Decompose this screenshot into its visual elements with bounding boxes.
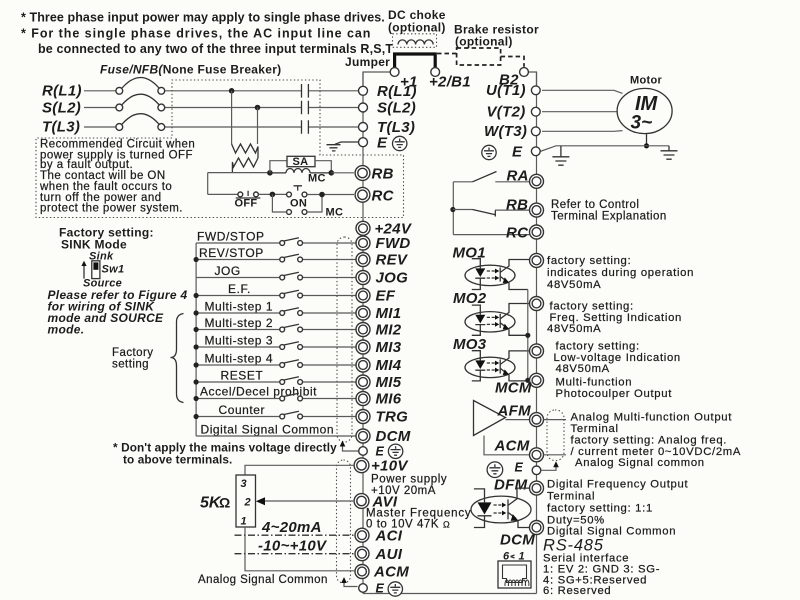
Sw1 switch symbol xyxy=(92,261,100,279)
MC main contact T xyxy=(302,120,309,134)
wire +10V to pot pin3 xyxy=(245,465,354,475)
terminal E (control) xyxy=(359,447,368,456)
wire OFF to ON xyxy=(259,193,287,195)
svg-text:Terminal: Terminal xyxy=(571,423,619,435)
arrow from analog E to capsule xyxy=(344,580,358,587)
wire +1 to left bus corner xyxy=(363,72,390,87)
ACM stub right xyxy=(544,454,567,456)
svg-text:DFM: DFM xyxy=(494,477,528,494)
svg-text:ACM: ACM xyxy=(373,564,409,581)
relay contact bus xyxy=(452,182,454,235)
circled ground at control E xyxy=(388,444,402,458)
wire S row xyxy=(84,107,116,109)
terminal RA xyxy=(530,174,544,188)
fault circuit left drop xyxy=(207,173,209,195)
terminal FWD xyxy=(356,236,370,250)
brake resistor dashed box xyxy=(457,48,501,65)
svg-text:ON: ON xyxy=(290,198,307,210)
wire T row xyxy=(84,126,116,128)
MC main contact S xyxy=(302,101,309,115)
left terminal bus xyxy=(362,72,364,594)
terminal MI4 xyxy=(356,358,370,372)
svg-text:E.F.: E.F. xyxy=(228,282,251,296)
terminal MO1 xyxy=(530,253,544,267)
dashed wire +2/B1 to brake resistor xyxy=(437,53,457,55)
svg-text:DCM: DCM xyxy=(500,532,535,549)
svg-text:Multi-function: Multi-function xyxy=(556,377,633,389)
SA branch up wire xyxy=(270,161,287,173)
AFM amplifier xyxy=(474,401,506,436)
svg-text:T(L3): T(L3) xyxy=(42,119,80,136)
terminal B2 xyxy=(520,68,529,77)
terminal E right xyxy=(532,466,541,475)
svg-text:RB: RB xyxy=(372,166,394,183)
svg-text:-10~+10V: -10~+10V xyxy=(258,538,328,555)
svg-text:setting: setting xyxy=(112,359,149,371)
svg-text:Refer to Control: Refer to Control xyxy=(551,199,639,211)
svg-text:REV/STOP: REV/STOP xyxy=(199,246,264,260)
control wiring capsule xyxy=(337,237,352,442)
svg-text:(optional): (optional) xyxy=(388,21,446,35)
terminal AFM xyxy=(530,413,544,427)
svg-text:MI3: MI3 xyxy=(376,339,402,356)
wire R row xyxy=(84,90,116,92)
svg-text:E: E xyxy=(512,144,523,161)
wire drop from S junction xyxy=(257,108,259,145)
recommended-circuit dotted boundary polygon xyxy=(36,80,404,218)
output terminal E xyxy=(531,147,540,156)
svg-text:* Three phase input power may: * Three phase input power may apply to s… xyxy=(21,11,385,25)
svg-text:Sw1: Sw1 xyxy=(102,264,125,276)
circled ground at output E xyxy=(482,145,496,159)
circled ground at input E xyxy=(393,136,407,150)
ACI dash-dot wire xyxy=(235,534,356,536)
svg-text:V(T2): V(T2) xyxy=(487,104,526,121)
svg-text:6: Reserved: 6: Reserved xyxy=(543,585,611,597)
bottom common wire xyxy=(363,593,537,595)
factory setting brace xyxy=(171,314,184,403)
OFF switch wire xyxy=(208,193,238,195)
input terminal R(L1) xyxy=(359,86,368,95)
svg-text:MI5: MI5 xyxy=(376,374,402,391)
fault circuit bottom wire xyxy=(208,172,270,174)
terminal MCM xyxy=(530,373,544,387)
fuse/NFB R xyxy=(116,87,123,94)
terminal RB (output) xyxy=(530,203,544,217)
junction at SA branch xyxy=(267,170,273,176)
terminal REV xyxy=(356,253,370,267)
svg-text:Multi-step 4: Multi-step 4 xyxy=(205,352,274,366)
OFF contact xyxy=(238,192,243,197)
terminal MI3 xyxy=(356,340,370,354)
svg-text:W(T3): W(T3) xyxy=(484,123,527,140)
AFM stub right xyxy=(544,419,567,421)
junction right of SA xyxy=(329,170,335,176)
terminal +24V xyxy=(356,221,370,235)
motor IM 3~ xyxy=(617,88,672,133)
wire amp to AFM xyxy=(506,419,530,421)
terminal DFM xyxy=(530,481,544,495)
RJ45 jack xyxy=(498,561,531,588)
MC main contact R xyxy=(302,84,309,98)
input terminal S(L2) xyxy=(359,103,368,112)
svg-text:RC: RC xyxy=(506,225,529,242)
terminal ACM xyxy=(355,565,369,579)
svg-text:E: E xyxy=(377,135,388,152)
svg-text:MC: MC xyxy=(308,173,326,185)
terminal DCM (right) xyxy=(530,521,544,535)
svg-text:mode.: mode. xyxy=(48,323,85,337)
svg-text:ACM: ACM xyxy=(494,438,530,455)
svg-text:Analog Signal Common: Analog Signal Common xyxy=(198,574,328,586)
svg-text:Photocoulper Output: Photocoulper Output xyxy=(556,388,673,400)
svg-text:Fuse/NFB(None Fuse Breaker): Fuse/NFB(None Fuse Breaker) xyxy=(100,63,281,77)
svg-text:ACI: ACI xyxy=(375,528,403,545)
svg-text:R(L1): R(L1) xyxy=(42,83,82,100)
svg-text:factory setting: 1:1: factory setting: 1:1 xyxy=(547,503,653,515)
terminal +10V xyxy=(354,458,369,473)
wire drop from R junction xyxy=(231,91,233,144)
svg-text:TRG: TRG xyxy=(376,409,409,426)
svg-text:Analog Multi-function Output: Analog Multi-function Output xyxy=(571,412,733,424)
svg-text:protect the power system.: protect the power system. xyxy=(40,203,183,215)
terminal ACM (right) xyxy=(530,448,544,462)
input terminal T(L3) xyxy=(359,123,368,132)
svg-text:factory setting:: factory setting: xyxy=(550,301,634,313)
terminal AUI xyxy=(355,547,369,561)
svg-text:JOG: JOG xyxy=(376,270,409,287)
junction right of ON xyxy=(319,192,325,198)
svg-text:Multi-step 3: Multi-step 3 xyxy=(205,334,274,348)
terminal +1 xyxy=(390,68,399,77)
wire B2 to right bus corner xyxy=(528,72,536,86)
wire W to motor xyxy=(542,130,623,133)
ground symbol near E output xyxy=(560,146,562,157)
svg-text:* For the single phase drives,: * For the single phase drives, the AC in… xyxy=(21,27,371,41)
svg-text:Factory: Factory xyxy=(112,347,154,359)
svg-text:Power supply: Power supply xyxy=(371,474,447,486)
svg-text:Multi-step 1: Multi-step 1 xyxy=(205,300,274,314)
svg-text:factory setting:: factory setting: xyxy=(556,341,640,353)
terminal MO2 xyxy=(530,297,544,311)
terminal MI5 xyxy=(356,375,370,389)
wire pot pin1 to ACM xyxy=(245,527,355,571)
svg-text:EF: EF xyxy=(376,288,396,305)
svg-text:JOG: JOG xyxy=(215,264,241,278)
ground symbol near motor xyxy=(668,146,670,151)
terminal EF xyxy=(356,289,370,303)
DC choke coil xyxy=(398,40,433,45)
svg-text:48V50mA: 48V50mA xyxy=(556,363,610,375)
svg-text:MI4: MI4 xyxy=(376,357,402,374)
svg-text:MI1: MI1 xyxy=(376,305,402,322)
svg-text:AUI: AUI xyxy=(375,546,403,563)
output terminal U(T1) xyxy=(531,86,540,95)
MC coil xyxy=(270,169,331,173)
svg-text:E: E xyxy=(376,445,385,459)
terminal +2/B1 xyxy=(431,68,440,77)
DC choke L1 dotted box xyxy=(393,34,437,48)
Sw1 arrow xyxy=(83,265,85,279)
jumper thick bar between +1 and +2/B1 xyxy=(395,54,436,68)
wire to RB xyxy=(331,172,354,174)
fuse/NFB S xyxy=(116,104,123,111)
terminal DCM xyxy=(356,429,370,443)
SA box xyxy=(287,156,315,166)
svg-text:+10V: +10V xyxy=(371,458,409,475)
RC wire xyxy=(453,234,530,236)
AFM capsule xyxy=(547,410,564,461)
ON push button actuator xyxy=(294,186,303,191)
svg-text:factory setting:: factory setting: xyxy=(547,255,631,267)
svg-text:3: 3 xyxy=(241,478,247,490)
arrow from E to capsule xyxy=(343,444,359,451)
svg-text:RC: RC xyxy=(372,188,395,205)
wire AVI to pot wiper xyxy=(263,500,355,502)
svg-text:(optional): (optional) xyxy=(455,35,513,49)
svg-text:MI2: MI2 xyxy=(376,322,402,339)
terminal MI1 xyxy=(356,306,370,320)
svg-text:to above terminals.: to above terminals. xyxy=(123,453,232,467)
MC aux right link xyxy=(307,195,322,213)
resistor zigzag upper xyxy=(232,144,258,158)
right terminal bus xyxy=(536,72,538,594)
terminal RC xyxy=(355,187,370,202)
terminal JOG xyxy=(356,271,370,285)
svg-text:48V50mA: 48V50mA xyxy=(547,279,601,291)
svg-text:DCM: DCM xyxy=(376,428,411,445)
svg-text:Counter: Counter xyxy=(219,403,266,417)
svg-text:Motor: Motor xyxy=(630,75,662,87)
MO3 optocoupler xyxy=(465,351,530,381)
terminal TRG xyxy=(356,410,370,424)
svg-text:RESET: RESET xyxy=(221,369,264,383)
SA right wire xyxy=(315,161,331,173)
svg-text:MO3: MO3 xyxy=(453,336,487,353)
analog wiring capsule xyxy=(337,460,351,583)
circled ground at right E xyxy=(487,462,503,478)
svg-text:+2/B1: +2/B1 xyxy=(429,74,471,91)
svg-text:3~: 3~ xyxy=(631,113,653,134)
terminal MO3 xyxy=(530,344,544,358)
svg-text:U(T1): U(T1) xyxy=(486,82,526,99)
svg-text:E: E xyxy=(376,582,385,596)
motor ground drop xyxy=(646,134,648,146)
DFM optocoupler xyxy=(471,488,531,527)
svg-text:OFF: OFF xyxy=(235,198,258,210)
svg-text:E: E xyxy=(515,461,524,475)
AUI dash-dot wire xyxy=(235,553,356,555)
amp input wire xyxy=(484,436,530,455)
svg-text:AFM: AFM xyxy=(497,403,532,420)
terminal RC (output) xyxy=(530,225,544,239)
svg-text:RA: RA xyxy=(507,168,529,185)
wire V to motor xyxy=(542,111,618,113)
svg-text:MCM: MCM xyxy=(495,380,532,397)
svg-text:factory setting: Analog freq.: factory setting: Analog freq. xyxy=(571,435,728,447)
resistor zigzag lower xyxy=(232,158,258,173)
output terminal V(T2) xyxy=(531,107,540,116)
svg-text:S(L2): S(L2) xyxy=(42,100,81,117)
wire ON to RC xyxy=(307,194,354,196)
dashed wire brake resistor to B2 xyxy=(501,57,524,67)
svg-text:Multi-step 2: Multi-step 2 xyxy=(205,316,274,330)
terminal ACI xyxy=(355,528,369,542)
svg-text:FWD/STOP: FWD/STOP xyxy=(197,230,265,244)
RB contact (NC) xyxy=(453,209,529,212)
RA contact (NO) xyxy=(453,181,529,183)
MC aux contact bottom xyxy=(287,210,292,215)
MC aux left link xyxy=(272,194,286,212)
fuse/NFB T xyxy=(116,124,123,131)
svg-text:Terminal: Terminal xyxy=(547,491,595,503)
svg-text:SINK Mode: SINK Mode xyxy=(61,238,127,252)
svg-text:REV: REV xyxy=(376,252,409,269)
svg-text:Analog Signal common: Analog Signal common xyxy=(575,457,705,469)
junction left of ON xyxy=(270,192,276,198)
control input bus xyxy=(195,243,197,436)
potentiometer body xyxy=(236,475,256,527)
svg-text:R(L1): R(L1) xyxy=(377,83,417,100)
terminal AVI xyxy=(354,494,369,509)
terminal MI6 xyxy=(356,392,370,406)
terminal MI2 xyxy=(356,323,370,337)
junction on S xyxy=(255,105,261,111)
junction on R xyxy=(229,88,235,94)
svg-text:Ω: Ω xyxy=(219,495,230,511)
ground symbol at input E xyxy=(335,142,359,144)
terminal RB xyxy=(355,166,370,181)
circled ground at analog E xyxy=(388,582,402,596)
MO2 optocoupler xyxy=(465,304,530,336)
svg-text:Terminal Explanation: Terminal Explanation xyxy=(551,211,667,223)
svg-text:Digital Signal Common: Digital Signal Common xyxy=(201,423,335,437)
svg-text:T(L3): T(L3) xyxy=(377,119,415,136)
svg-text:RB: RB xyxy=(506,197,528,214)
svg-text:2: 2 xyxy=(244,497,251,509)
svg-text:48V50mA: 48V50mA xyxy=(547,323,601,335)
photocoupler emitter bus xyxy=(528,290,530,381)
svg-text:SA: SA xyxy=(293,156,309,168)
svg-text:indicates during operation: indicates during operation xyxy=(547,267,694,279)
terminal E (analog) xyxy=(359,584,368,593)
svg-text:MI6: MI6 xyxy=(376,391,402,408)
ON contact top xyxy=(287,192,292,197)
svg-text:Digital Frequency Output: Digital Frequency Output xyxy=(547,479,688,491)
arrow E to AFM capsule xyxy=(541,465,556,471)
svg-text:MC: MC xyxy=(326,207,344,219)
svg-text:Jumper: Jumper xyxy=(345,55,390,69)
svg-text:4~20mA: 4~20mA xyxy=(261,519,322,536)
wire E to earth rail xyxy=(540,146,669,152)
svg-text:FWD: FWD xyxy=(376,235,411,252)
svg-text:MO2: MO2 xyxy=(453,290,487,307)
svg-text:S(L2): S(L2) xyxy=(377,100,416,117)
svg-text:be connected to any two of the: be connected to any two of the three inp… xyxy=(38,42,393,56)
svg-text:1: 1 xyxy=(241,516,247,528)
output terminal W(T3) xyxy=(531,127,540,136)
input terminal E xyxy=(359,138,368,147)
MO1 optocoupler xyxy=(465,259,530,290)
wire U to motor xyxy=(542,90,623,93)
